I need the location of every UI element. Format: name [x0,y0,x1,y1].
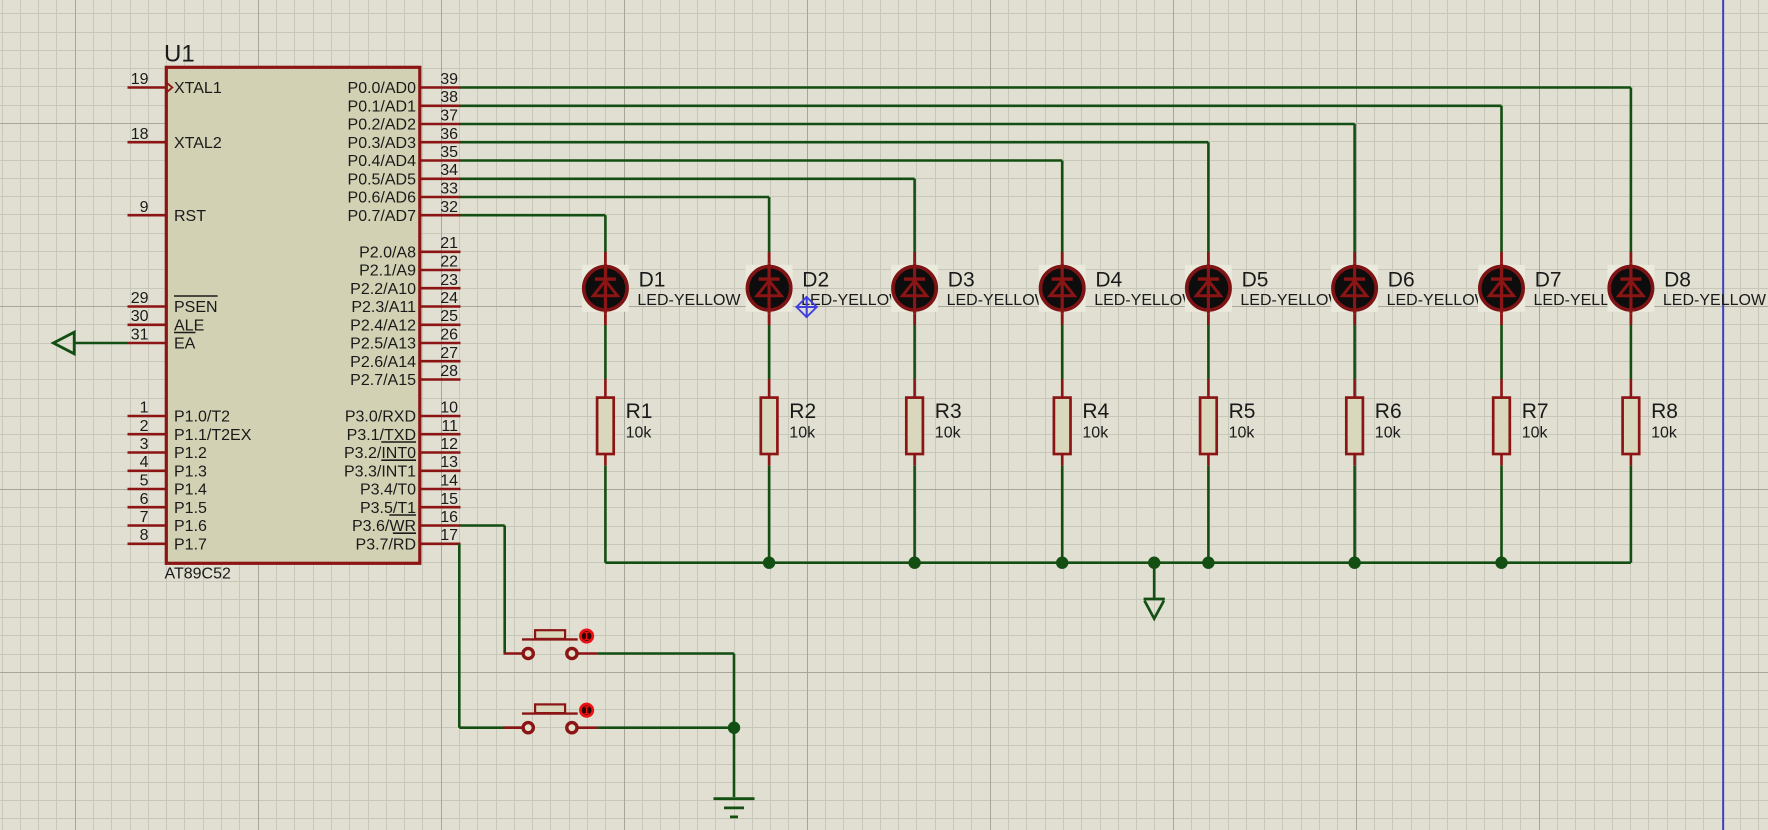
svg-text:D2: D2 [802,268,829,291]
svg-text:28: 28 [440,363,458,380]
svg-text:R6: R6 [1375,400,1402,423]
svg-text:10k: 10k [1082,424,1109,441]
svg-text:10k: 10k [1229,424,1256,441]
svg-text:LED-YELLOW: LED-YELLOW [637,292,741,309]
svg-text:D8: D8 [1664,268,1691,291]
svg-text:3: 3 [140,436,149,453]
svg-text:26: 26 [440,327,458,344]
svg-text:R3: R3 [935,400,962,423]
svg-text:16: 16 [440,509,458,526]
svg-text:29: 29 [131,290,149,307]
svg-text:R4: R4 [1082,400,1109,423]
svg-text:P1.4: P1.4 [174,482,207,499]
svg-text:10: 10 [440,400,458,417]
svg-text:LED-YELLOW: LED-YELLOW [947,292,1051,309]
svg-text:27: 27 [440,345,458,362]
svg-text:30: 30 [131,308,149,325]
svg-text:21: 21 [440,235,458,252]
svg-text:10k: 10k [1375,424,1402,441]
svg-text:P2.6/A14: P2.6/A14 [350,354,416,371]
svg-text:LED-YELLOW: LED-YELLOW [1094,292,1198,309]
svg-text:P1.3: P1.3 [174,463,207,480]
svg-text:P0.4/AD4: P0.4/AD4 [348,153,417,170]
svg-text:P2.2/A10: P2.2/A10 [350,281,416,298]
svg-text:12: 12 [440,436,458,453]
svg-text:D6: D6 [1388,268,1415,291]
svg-text:13: 13 [440,454,458,471]
svg-text:P3.7/RD: P3.7/RD [356,537,416,554]
svg-text:38: 38 [440,89,458,106]
svg-text:D4: D4 [1095,268,1122,291]
svg-text:P2.4/A12: P2.4/A12 [350,317,416,334]
svg-text:XTAL2: XTAL2 [174,135,222,152]
svg-text:35: 35 [440,144,458,161]
svg-text:8: 8 [140,527,149,544]
svg-text:23: 23 [440,272,458,289]
svg-text:R2: R2 [789,400,816,423]
svg-text:P1.5: P1.5 [174,500,207,517]
svg-text:24: 24 [440,290,458,307]
svg-text:P2.0/A8: P2.0/A8 [359,244,416,261]
svg-text:P1.7: P1.7 [174,537,207,554]
svg-text:R1: R1 [626,400,653,423]
svg-text:14: 14 [440,473,458,490]
svg-text:D7: D7 [1535,268,1562,291]
svg-text:P2.5/A13: P2.5/A13 [350,336,416,353]
svg-text:R8: R8 [1651,400,1678,423]
svg-text:PSEN: PSEN [174,299,218,316]
svg-text:XTAL1: XTAL1 [174,80,222,97]
svg-text:P1.6: P1.6 [174,518,207,535]
svg-text:10k: 10k [935,424,962,441]
svg-text:22: 22 [440,254,458,271]
svg-text:18: 18 [131,126,149,143]
svg-text:36: 36 [440,126,458,143]
svg-text:10k: 10k [789,424,816,441]
svg-text:P2.3/A11: P2.3/A11 [351,299,416,316]
svg-text:7: 7 [140,509,149,526]
svg-text:25: 25 [440,308,458,325]
svg-text:2: 2 [140,418,149,435]
svg-text:39: 39 [440,71,458,88]
svg-text:10k: 10k [1651,424,1678,441]
svg-text:11: 11 [441,418,458,435]
svg-text:9: 9 [140,199,149,216]
svg-text:U1: U1 [164,41,195,68]
svg-text:15: 15 [440,491,458,508]
svg-text:D1: D1 [639,268,666,291]
svg-text:31: 31 [131,327,149,344]
svg-text:P0.2/AD2: P0.2/AD2 [348,117,417,134]
svg-text:1: 1 [140,400,149,417]
svg-text:34: 34 [440,162,458,179]
svg-text:P2.1/A9: P2.1/A9 [359,263,416,280]
svg-text:P3.4/T0: P3.4/T0 [360,482,416,499]
svg-text:LED-YELLOW: LED-YELLOW [1663,292,1767,309]
svg-text:P0.3/AD3: P0.3/AD3 [348,135,417,152]
svg-text:5: 5 [140,473,149,490]
svg-text:6: 6 [140,491,149,508]
svg-text:33: 33 [440,181,458,198]
svg-text:D5: D5 [1242,268,1269,291]
svg-text:R5: R5 [1229,400,1256,423]
svg-text:P0.7/AD7: P0.7/AD7 [348,208,417,225]
svg-text:37: 37 [440,108,458,125]
svg-text:19: 19 [131,71,149,88]
svg-text:P1.0/T2: P1.0/T2 [174,409,230,426]
svg-text:P0.1/AD1: P0.1/AD1 [348,99,417,116]
svg-text:EA: EA [174,336,196,353]
svg-text:LED-YELLOW: LED-YELLOW [1387,292,1491,309]
svg-text:32: 32 [440,199,458,216]
svg-text:4: 4 [140,454,149,471]
svg-text:P3.3/INT1: P3.3/INT1 [344,463,416,480]
svg-text:P2.7/A15: P2.7/A15 [350,372,416,389]
svg-text:P3.0/RXD: P3.0/RXD [345,409,416,426]
svg-text:P0.5/AD5: P0.5/AD5 [348,171,417,188]
svg-text:AT89C52: AT89C52 [165,566,232,583]
svg-text:RST: RST [174,208,206,225]
svg-text:LED-YELLOW: LED-YELLOW [1240,292,1344,309]
svg-text:R7: R7 [1522,400,1549,423]
svg-text:P0.0/AD0: P0.0/AD0 [348,80,417,97]
svg-text:P1.2: P1.2 [174,445,207,462]
svg-text:P0.6/AD6: P0.6/AD6 [348,190,417,207]
svg-text:10k: 10k [626,424,653,441]
svg-text:D3: D3 [948,268,975,291]
svg-text:P1.1/T2EX: P1.1/T2EX [174,427,252,444]
svg-text:17: 17 [440,527,458,544]
svg-text:10k: 10k [1522,424,1549,441]
